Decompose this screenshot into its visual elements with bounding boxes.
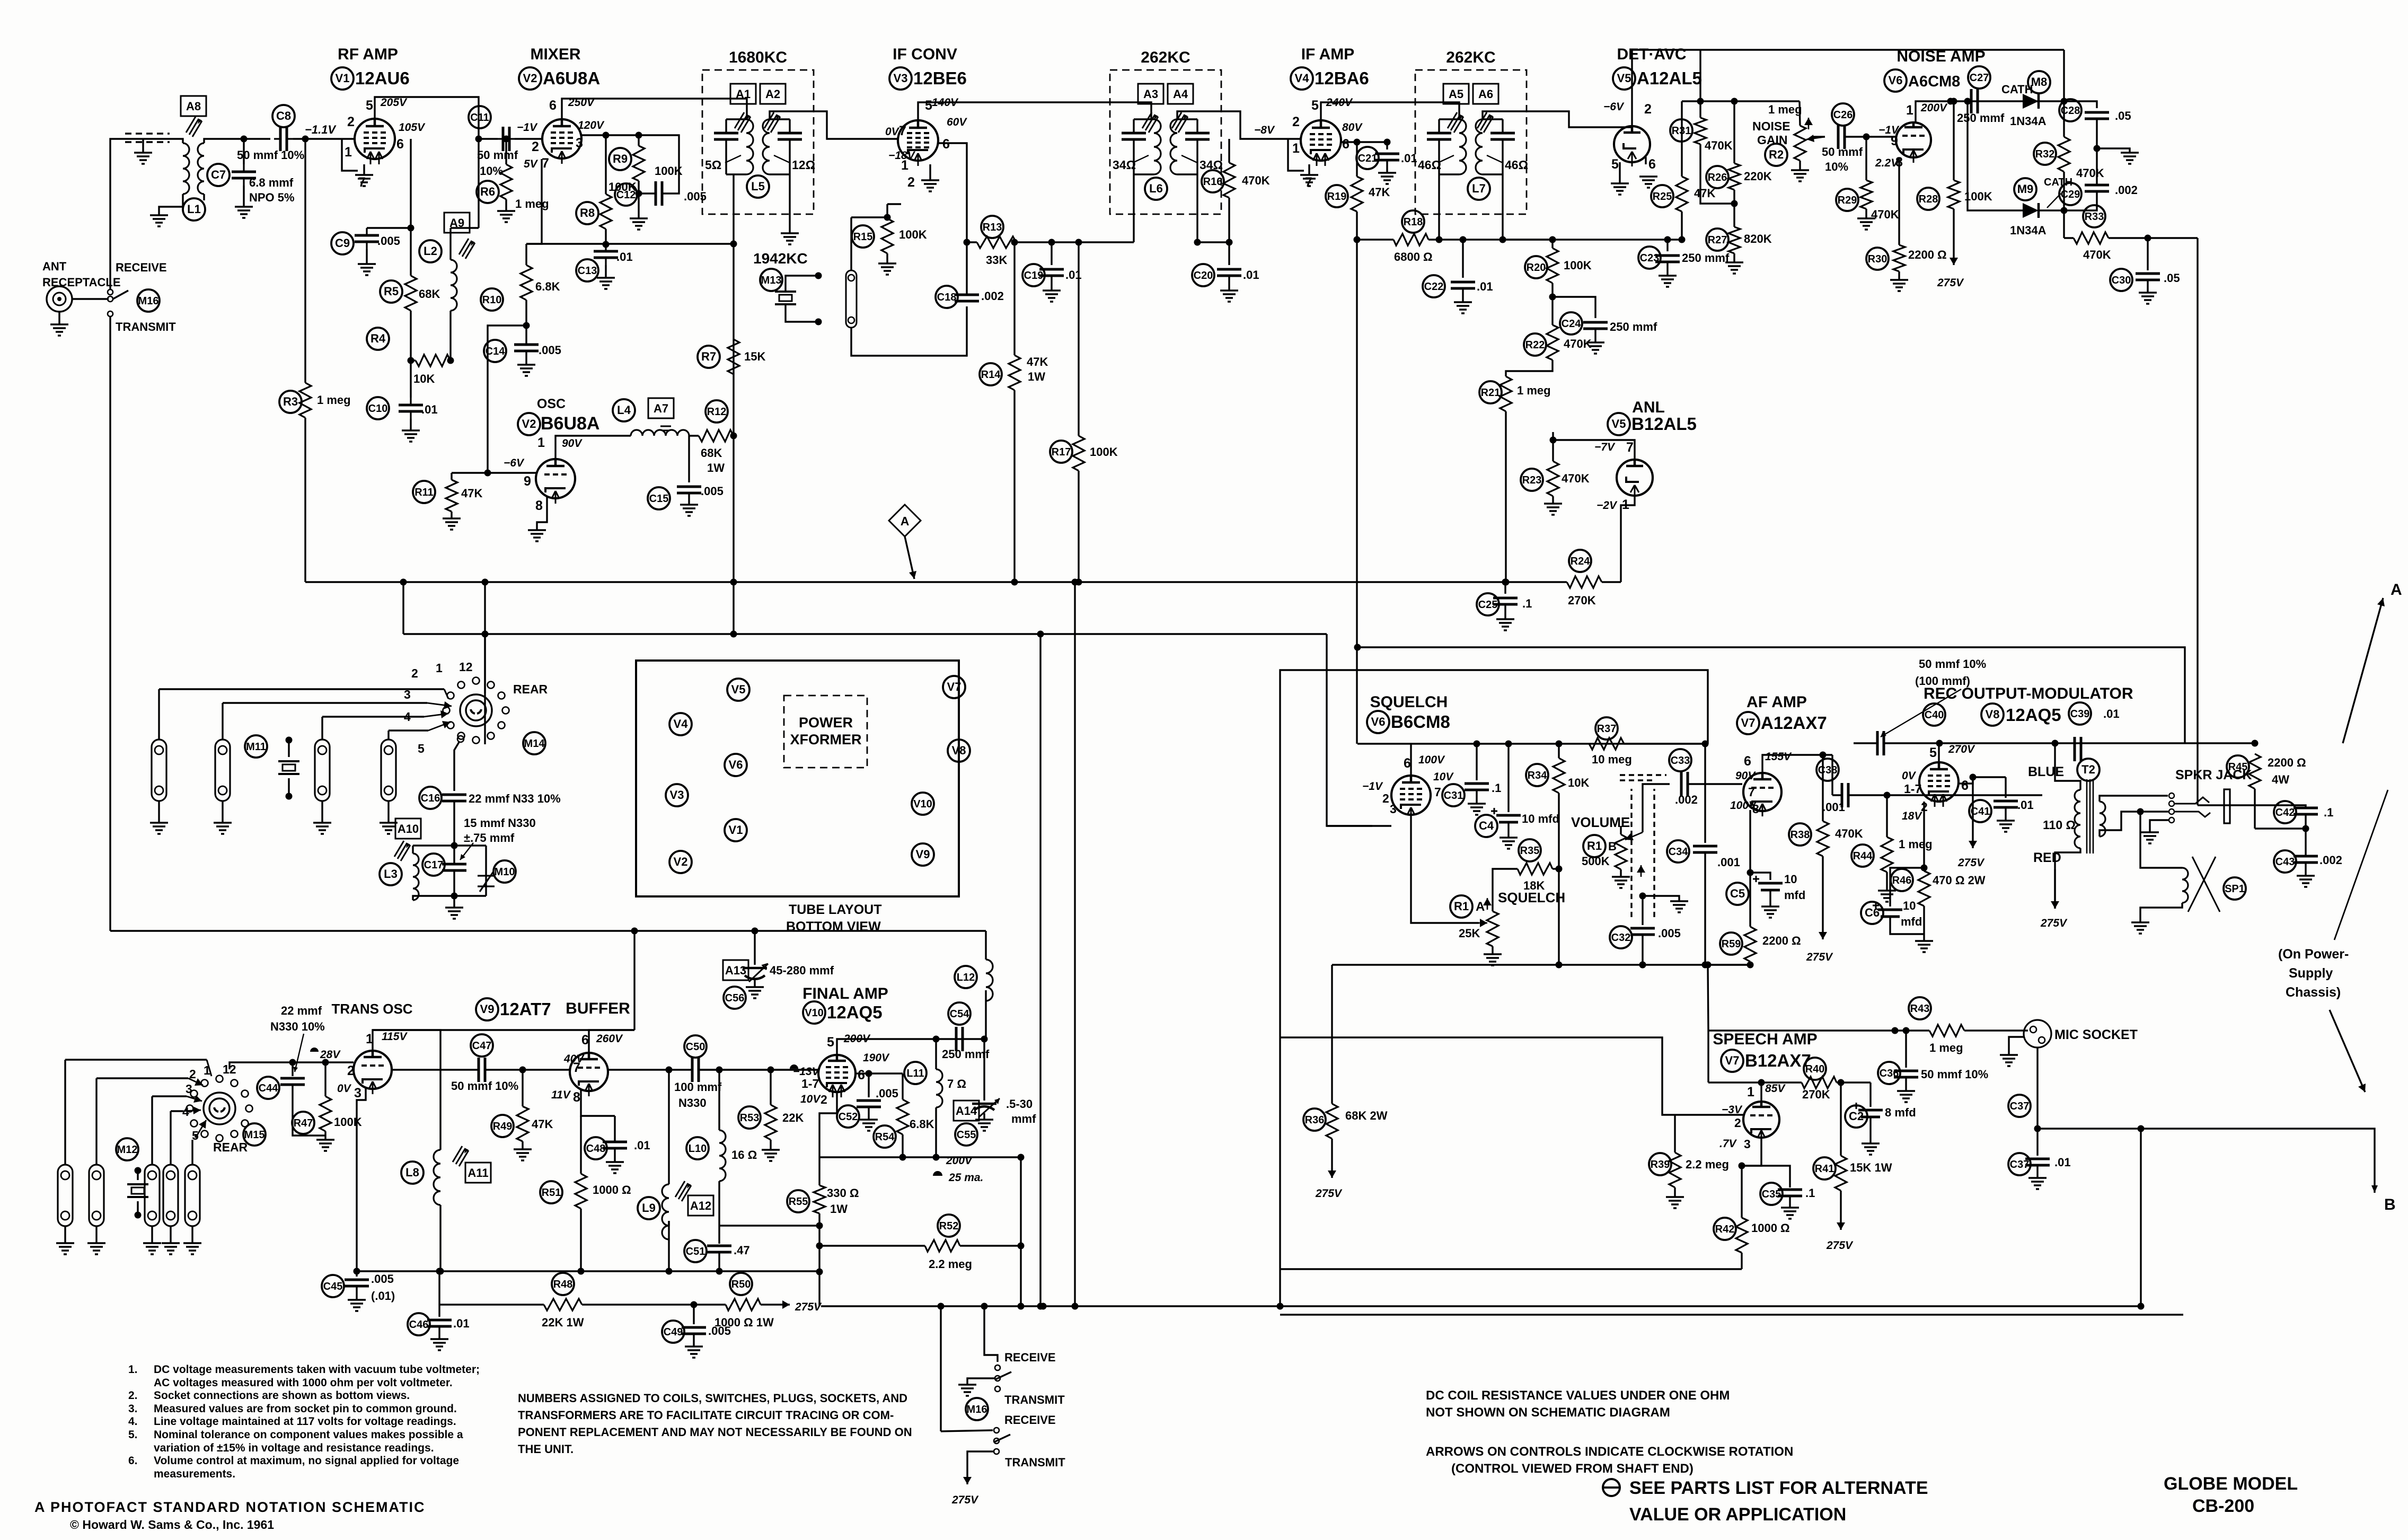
svg-text:V7: V7: [947, 680, 962, 693]
svg-text:SPEECH AMP: SPEECH AMP: [1713, 1031, 1817, 1048]
wire ant to ground: [58, 312, 60, 324]
svg-text:V6: V6: [1889, 74, 1903, 87]
capacitor C37 body: [2008, 1153, 2031, 1175]
svg-text:25K: 25K: [1459, 927, 1480, 940]
svg-text:8: 8: [573, 1090, 580, 1105]
svg-text:10 meg: 10 meg: [1592, 753, 1632, 766]
svg-text:C4: C4: [1479, 819, 1494, 832]
svg-text:7: 7: [1748, 785, 1755, 799]
svg-text:85V: 85V: [1765, 1083, 1786, 1095]
svg-text:100K: 100K: [1964, 190, 1992, 203]
resistor R3: [279, 391, 302, 413]
svg-text:PONENT REPLACEMENT AND MAY: PONENT REPLACEMENT AND MAY NOT NECESSARI…: [518, 1425, 912, 1439]
svg-text:.1: .1: [1805, 1186, 1815, 1200]
svg-text:C33: C33: [1671, 755, 1690, 767]
svg-text:262KC: 262KC: [1141, 49, 1190, 66]
svg-text:V7: V7: [1741, 716, 1756, 729]
svg-text:NUMBERS ASSIGNED TO COILS,: NUMBERS ASSIGNED TO COILS, SWITCHES, PLU…: [518, 1392, 907, 1405]
svg-text:.7V: .7V: [1719, 1138, 1737, 1150]
svg-text:22K: 22K: [782, 1111, 804, 1124]
capacitor C31: [1442, 784, 1465, 806]
A8 trimmer: [181, 96, 206, 116]
svg-text:.001: .001: [1717, 856, 1740, 869]
svg-text:220K: 220K: [1744, 170, 1772, 183]
svg-text:C49: C49: [664, 1326, 683, 1338]
svg-text:M15: M15: [244, 1129, 265, 1141]
wire 262KC#1 pri bottom: [1133, 174, 1134, 242]
svg-text:measurements.: measurements.: [154, 1468, 235, 1480]
wire osc grid: [452, 472, 537, 473]
svg-text:R37: R37: [1597, 723, 1617, 735]
svg-text:R50: R50: [731, 1279, 751, 1290]
svg-text:R8: R8: [580, 206, 595, 219]
tube layout V4: [669, 713, 692, 735]
wire M15 contact 5 line: [195, 1134, 196, 1138]
svg-text:B: B: [1608, 840, 1617, 853]
wire right side vertical: [2197, 238, 2198, 805]
resistor R15: [852, 225, 874, 248]
capacitor C12: [615, 183, 637, 206]
capacitor C7: [243, 139, 244, 164]
svg-text:mfd: mfd: [1901, 915, 1922, 928]
capacitor C45: [322, 1275, 344, 1297]
svg-text:R52: R52: [939, 1220, 959, 1232]
tube layout V7: [943, 676, 965, 698]
svg-text:IF AMP: IF AMP: [1301, 46, 1355, 63]
svg-text:10 mfd: 10 mfd: [1522, 812, 1559, 825]
wire V8 cathode to R46: [1923, 802, 1925, 868]
ground 1680KC sec bottom: [789, 174, 790, 233]
svg-text:7: 7: [542, 156, 549, 171]
resistor R50 1000ohm 1W: [730, 1273, 752, 1295]
svg-text:275V: 275V: [951, 1494, 979, 1506]
svg-text:B6U8A: B6U8A: [541, 413, 599, 434]
svg-text:1.: 1.: [128, 1363, 138, 1376]
crystal sockets row2: [58, 1165, 73, 1226]
svg-text:470K: 470K: [1871, 208, 1899, 221]
wire C40 left: [1854, 742, 1877, 744]
svg-text:1N34A: 1N34A: [2010, 224, 2047, 237]
svg-text:R45: R45: [2228, 761, 2248, 773]
ground V4 cathode: [1308, 164, 1310, 175]
tube layout V5: [727, 679, 749, 701]
resistor R36 68K 2W: [1303, 1108, 1326, 1131]
svg-text:260V: 260V: [596, 1033, 623, 1045]
svg-text:275V: 275V: [795, 1301, 822, 1313]
svg-text:POWER: POWER: [799, 715, 853, 731]
svg-text:R36: R36: [1305, 1114, 1325, 1126]
svg-text:C30: C30: [2112, 275, 2131, 286]
wire M14 contact 2 line: [223, 702, 427, 703]
svg-text:R18: R18: [1404, 216, 1423, 228]
svg-text:V8: V8: [952, 744, 966, 757]
wire mic line: [1708, 1029, 1895, 1031]
svg-text:2: 2: [347, 115, 355, 129]
svg-text:NOISE: NOISE: [1752, 119, 1790, 133]
capacitor C26: [1832, 103, 1854, 126]
svg-text:90V: 90V: [562, 437, 583, 450]
svg-text:10: 10: [1903, 899, 1916, 912]
svg-text:R16: R16: [1203, 176, 1223, 188]
shield dashes: [125, 133, 170, 134]
tube V8 12AQ5: [1919, 762, 1959, 802]
svg-text:A12AX7: A12AX7: [1761, 713, 1827, 733]
wire M15 contact 4 line: [171, 1110, 183, 1112]
pointer lines: [2334, 790, 2388, 940]
svg-text:1: 1: [436, 661, 443, 675]
svg-text:V10: V10: [805, 1007, 824, 1019]
resistor R49: [491, 1115, 514, 1137]
wire receive to L1: [110, 139, 157, 289]
A arrow: [2343, 598, 2383, 743]
pot R1A SQUELCH 25K: [1450, 895, 1472, 918]
svg-text:N330: N330: [678, 1096, 707, 1110]
svg-text:R9: R9: [613, 152, 628, 165]
svg-text:−1V: −1V: [1362, 780, 1383, 793]
svg-text:1: 1: [901, 158, 908, 173]
svg-text:A7: A7: [654, 402, 668, 415]
IF transformer L6 262KC: [1110, 70, 1221, 214]
wire long vertical 1963: [1039, 634, 1041, 1306]
capacitor C27: [1968, 66, 1990, 89]
svg-text:90V: 90V: [1735, 770, 1756, 782]
svg-text:TUBE LAYOUT: TUBE LAYOUT: [789, 902, 881, 917]
resistor R45 2200 4W: [2227, 755, 2249, 778]
svg-text:L5: L5: [751, 180, 765, 193]
coil L8 / A11: [401, 1161, 424, 1184]
antenna coil L1: [183, 143, 189, 194]
wire V3 plate to 262KC#1: [918, 102, 1151, 120]
svg-text:16 Ω: 16 Ω: [731, 1148, 757, 1161]
svg-text:3.: 3.: [128, 1403, 138, 1415]
svg-text:3: 3: [1390, 802, 1397, 816]
capacitor C11: [469, 106, 491, 128]
svg-text:.005: .005: [539, 344, 561, 357]
svg-text:.1: .1: [2324, 806, 2333, 819]
svg-text:8: 8: [1752, 802, 1759, 816]
svg-text:4.: 4.: [128, 1415, 138, 1428]
svg-text:2: 2: [907, 175, 915, 190]
wire V7b plate to R40: [1760, 1083, 1762, 1102]
svg-text:C22: C22: [1424, 281, 1444, 293]
svg-text:120V: 120V: [578, 119, 605, 131]
svg-text:A4: A4: [1173, 87, 1188, 101]
svg-text:−7V: −7V: [1594, 441, 1616, 453]
wire V10 plate to tank: [837, 1039, 986, 1055]
svg-text:R31: R31: [1672, 125, 1691, 137]
svg-text:V3: V3: [894, 72, 908, 85]
wire L1 sec top: [204, 139, 244, 143]
svg-text:.05: .05: [2115, 109, 2131, 122]
svg-text:270V: 270V: [1948, 743, 1975, 755]
svg-text:100V: 100V: [1418, 754, 1445, 766]
svg-text:DET·AVC: DET·AVC: [1617, 46, 1686, 63]
svg-text:275V: 275V: [1937, 277, 1964, 289]
svg-text:11V: 11V: [551, 1089, 571, 1101]
wire V3 grid1 bias net: [887, 203, 901, 205]
coil L10: [686, 1137, 709, 1159]
transformer T2: [2075, 790, 2080, 848]
ground L1 primary: [150, 215, 168, 226]
capacitor C54: [948, 1002, 971, 1025]
svg-text:6: 6: [1961, 778, 1969, 793]
wire osc tank junction: [688, 436, 690, 482]
svg-text:R35: R35: [1520, 845, 1540, 857]
svg-text:2: 2: [532, 139, 539, 154]
capacitor C33: [1669, 749, 1691, 771]
tube layout V3: [666, 784, 688, 806]
svg-text:1: 1: [1906, 103, 1913, 118]
svg-text:R49: R49: [493, 1121, 513, 1132]
svg-text:22 mmf: 22 mmf: [281, 1004, 322, 1017]
wire V9b plate up to B+: [589, 1030, 634, 1053]
svg-text:R15: R15: [853, 231, 873, 243]
svg-text:V6: V6: [1371, 715, 1386, 728]
shield ground tap: [1639, 893, 1646, 900]
capacitor C35: [1760, 1183, 1783, 1205]
svg-text:M12: M12: [117, 1144, 138, 1156]
A diamond pointer: [889, 505, 921, 536]
svg-text:R55: R55: [789, 1196, 808, 1208]
svg-text:V2: V2: [522, 417, 536, 430]
svg-text:C52: C52: [839, 1111, 858, 1123]
trimmer C55 / A14: [954, 1101, 979, 1121]
wire speech plate line: [1708, 1081, 1802, 1083]
resistor R16: [1202, 170, 1224, 192]
svg-text:C38: C38: [1818, 764, 1838, 776]
M10 trimmer: [493, 860, 516, 883]
capacitor C19: [1022, 264, 1045, 286]
svg-text:1-7: 1-7: [801, 1077, 819, 1090]
svg-text:R3: R3: [283, 395, 298, 408]
svg-text:R12: R12: [707, 406, 727, 418]
svg-text:R6: R6: [480, 185, 495, 198]
svg-text:R10: R10: [482, 294, 502, 306]
svg-text:© Howard W. Sams & Co., I: © Howard W. Sams & Co., Inc. 1961: [70, 1518, 274, 1532]
capacitor C2 8mfd: [1845, 1105, 1867, 1128]
resistor R4: [367, 328, 389, 350]
resistor R51: [540, 1181, 562, 1203]
svg-text:6.8K: 6.8K: [910, 1117, 934, 1131]
svg-text:Chassis): Chassis): [2286, 985, 2341, 1000]
svg-text:L1: L1: [187, 203, 201, 216]
wire det plate to top line: [1632, 50, 1700, 126]
svg-text:.01: .01: [421, 403, 438, 416]
grid return box V1: [339, 138, 355, 139]
svg-text:(100 mmf): (100 mmf): [1915, 674, 1970, 688]
wire C42 line: [2255, 828, 2306, 829]
svg-text:5: 5: [366, 98, 373, 113]
svg-text:12BE6: 12BE6: [913, 68, 967, 88]
resistor R28: [1917, 188, 1939, 210]
svg-text:C37: C37: [2010, 1101, 2030, 1112]
svg-text:.01: .01: [2017, 798, 2034, 812]
svg-text:C15: C15: [649, 493, 669, 505]
svg-text:V1: V1: [336, 72, 350, 85]
svg-text:C45: C45: [323, 1281, 343, 1292]
svg-text:.01: .01: [616, 250, 633, 263]
svg-text:(CONTROL VIEWED FROM SHAFT: (CONTROL VIEWED FROM SHAFT END): [1451, 1462, 1693, 1476]
svg-text:1W: 1W: [707, 461, 725, 474]
grid return box V4: [1288, 139, 1304, 171]
svg-text:R28: R28: [1919, 193, 1938, 205]
svg-text:−13V: −13V: [793, 1066, 821, 1078]
svg-text:R23: R23: [1522, 474, 1542, 486]
svg-text:R51: R51: [542, 1187, 561, 1199]
svg-text:262KC: 262KC: [1446, 49, 1495, 66]
svg-text:−1V: −1V: [517, 121, 538, 134]
svg-text:SQUELCH: SQUELCH: [1370, 693, 1448, 711]
svg-text:68K: 68K: [419, 287, 440, 301]
svg-text:−2V: −2V: [1596, 499, 1618, 512]
svg-text:V9: V9: [480, 1002, 495, 1016]
svg-text:5: 5: [1929, 745, 1937, 760]
svg-text:2: 2: [1734, 1116, 1741, 1130]
resistor R53: [738, 1106, 761, 1129]
wire L9 vertical: [668, 1070, 669, 1184]
svg-text:5: 5: [827, 1035, 834, 1050]
svg-text:2200 Ω: 2200 Ω: [2268, 756, 2306, 769]
svg-text:R11: R11: [414, 487, 434, 498]
svg-text:R46: R46: [1892, 875, 1912, 886]
svg-text:470K: 470K: [1835, 827, 1863, 840]
svg-text:R21: R21: [1481, 387, 1501, 399]
svg-text:V5: V5: [731, 683, 746, 696]
svg-text:REAR: REAR: [513, 682, 548, 696]
svg-text:10K: 10K: [1568, 776, 1589, 789]
wire V10 grid: [699, 1069, 818, 1070]
svg-text:275V: 275V: [1315, 1187, 1343, 1200]
svg-text:R1: R1: [1454, 900, 1469, 913]
svg-text:155V: 155V: [1765, 751, 1792, 763]
svg-text:mfd: mfd: [1784, 888, 1805, 902]
svg-text:L12: L12: [957, 972, 975, 983]
ground tap C28/C29: [2094, 145, 2101, 152]
wire plate line V9 stages: [373, 1029, 634, 1031]
capacitor C42: [2274, 801, 2296, 823]
svg-text:C47: C47: [472, 1040, 492, 1052]
resistor R34: [1526, 764, 1548, 786]
second bottom line: [1280, 1314, 2183, 1315]
svg-text:T2: T2: [2081, 763, 2095, 776]
capacitor C52: [837, 1105, 859, 1128]
svg-text:V4: V4: [674, 717, 689, 731]
capacitor C9: [331, 232, 354, 254]
svg-text:80V: 80V: [1342, 121, 1363, 134]
wire T2 secondary to jack: [2100, 796, 2168, 802]
svg-text:5: 5: [418, 742, 425, 755]
svg-text:5: 5: [925, 98, 932, 113]
svg-text:470K: 470K: [1242, 174, 1270, 187]
svg-text:AC voltages measured with 100: AC voltages measured with 1000 ohm per v…: [154, 1377, 453, 1389]
svg-text:A3: A3: [1143, 87, 1158, 101]
capacitor C20: [1192, 264, 1214, 286]
svg-text:L6: L6: [1149, 182, 1163, 195]
svg-text:V6: V6: [729, 758, 743, 771]
svg-text:A12: A12: [690, 1199, 711, 1212]
svg-text:8 mfd: 8 mfd: [1885, 1106, 1916, 1119]
wire 262KC#1 sec top to V4 grid: [1177, 111, 1302, 139]
svg-text:REAR: REAR: [213, 1140, 248, 1154]
svg-text:AF AMP: AF AMP: [1747, 693, 1807, 711]
svg-text:C11: C11: [470, 112, 489, 124]
svg-text:R53: R53: [740, 1112, 760, 1124]
switch M16 receive/transmit (antenna): [108, 289, 113, 295]
svg-text:A8: A8: [186, 100, 201, 113]
wire 1680KC pri bottom down: [733, 174, 734, 444]
capacitor C25: [1477, 593, 1499, 615]
svg-text:R24: R24: [1571, 556, 1591, 567]
svg-text:TRANSMIT: TRANSMIT: [116, 320, 176, 333]
svg-text:100K: 100K: [1564, 259, 1592, 272]
svg-text:C50: C50: [686, 1041, 705, 1053]
resistor R24 270K: [1569, 550, 1591, 572]
svg-text:M16: M16: [138, 295, 159, 307]
svg-text:12AU6: 12AU6: [355, 68, 410, 88]
wire M14 wiper down to C16: [457, 736, 464, 742]
wire M15 contact 1 line: [65, 1059, 207, 1060]
svg-text:7: 7: [899, 124, 906, 138]
svg-text:L4: L4: [617, 403, 631, 417]
wire capsule feeders: [64, 1060, 66, 1165]
svg-text:.005: .005: [1658, 927, 1681, 940]
wire to C8: [244, 138, 270, 139]
bus A line: [305, 581, 1567, 583]
svg-text:R30: R30: [1868, 253, 1887, 265]
resistor R26: [1706, 166, 1728, 188]
wire M15 contact 3 line: [152, 1095, 187, 1097]
wire V7a cathode: [1749, 810, 1751, 873]
B line: [2037, 1129, 2375, 1193]
resistor R5: [380, 280, 402, 303]
wire bus Q with R48 R50: [438, 1271, 440, 1305]
svg-text:BOTTOM VIEW: BOTTOM VIEW: [786, 919, 881, 934]
wire V1 plate to B+: [375, 97, 479, 139]
capacitor C46: [408, 1313, 430, 1335]
svg-text:1942KC: 1942KC: [753, 250, 808, 267]
wire mic to B line: [2036, 1048, 2038, 1129]
svg-text:.001: .001: [1822, 800, 1845, 814]
svg-text:1000 Ω: 1000 Ω: [593, 1183, 631, 1196]
svg-text:1W: 1W: [830, 1202, 848, 1216]
svg-text:10V: 10V: [1433, 771, 1454, 783]
svg-text:DC voltage measurements taken: DC voltage measurements taken with vacuu…: [154, 1363, 480, 1376]
wire M14 feed vertical: [484, 582, 486, 634]
resistor R25: [1651, 185, 1673, 207]
svg-text:.01: .01: [453, 1317, 470, 1330]
wire V2a plate to 1680KC: [562, 99, 747, 119]
svg-text:33K: 33K: [986, 253, 1007, 267]
svg-text:.002: .002: [2115, 183, 2138, 197]
resistor R32: [2034, 143, 2056, 165]
wire det output: [1645, 157, 1646, 164]
svg-text:R54: R54: [875, 1131, 895, 1143]
svg-text:R26: R26: [1708, 172, 1727, 183]
svg-text:6800 Ω: 6800 Ω: [1394, 250, 1433, 263]
resistor R23: [1521, 469, 1543, 491]
svg-text:NOT SHOWN ON SCHEMATIC DIA: NOT SHOWN ON SCHEMATIC DIAGRAM: [1426, 1405, 1670, 1420]
svg-text:15K 1W: 15K 1W: [1850, 1161, 1892, 1174]
svg-text:M9: M9: [2017, 182, 2034, 196]
wire ANL plate in: [1553, 440, 1635, 460]
svg-text:NOISE AMP: NOISE AMP: [1897, 48, 1985, 65]
bus 2: [403, 633, 1327, 635]
svg-text:2: 2: [1382, 791, 1389, 805]
svg-text:12BA6: 12BA6: [1315, 68, 1369, 88]
svg-text:3: 3: [186, 1082, 192, 1096]
wire V9a cathode down: [357, 1087, 366, 1271]
wire ant to switch M16: [72, 298, 109, 300]
